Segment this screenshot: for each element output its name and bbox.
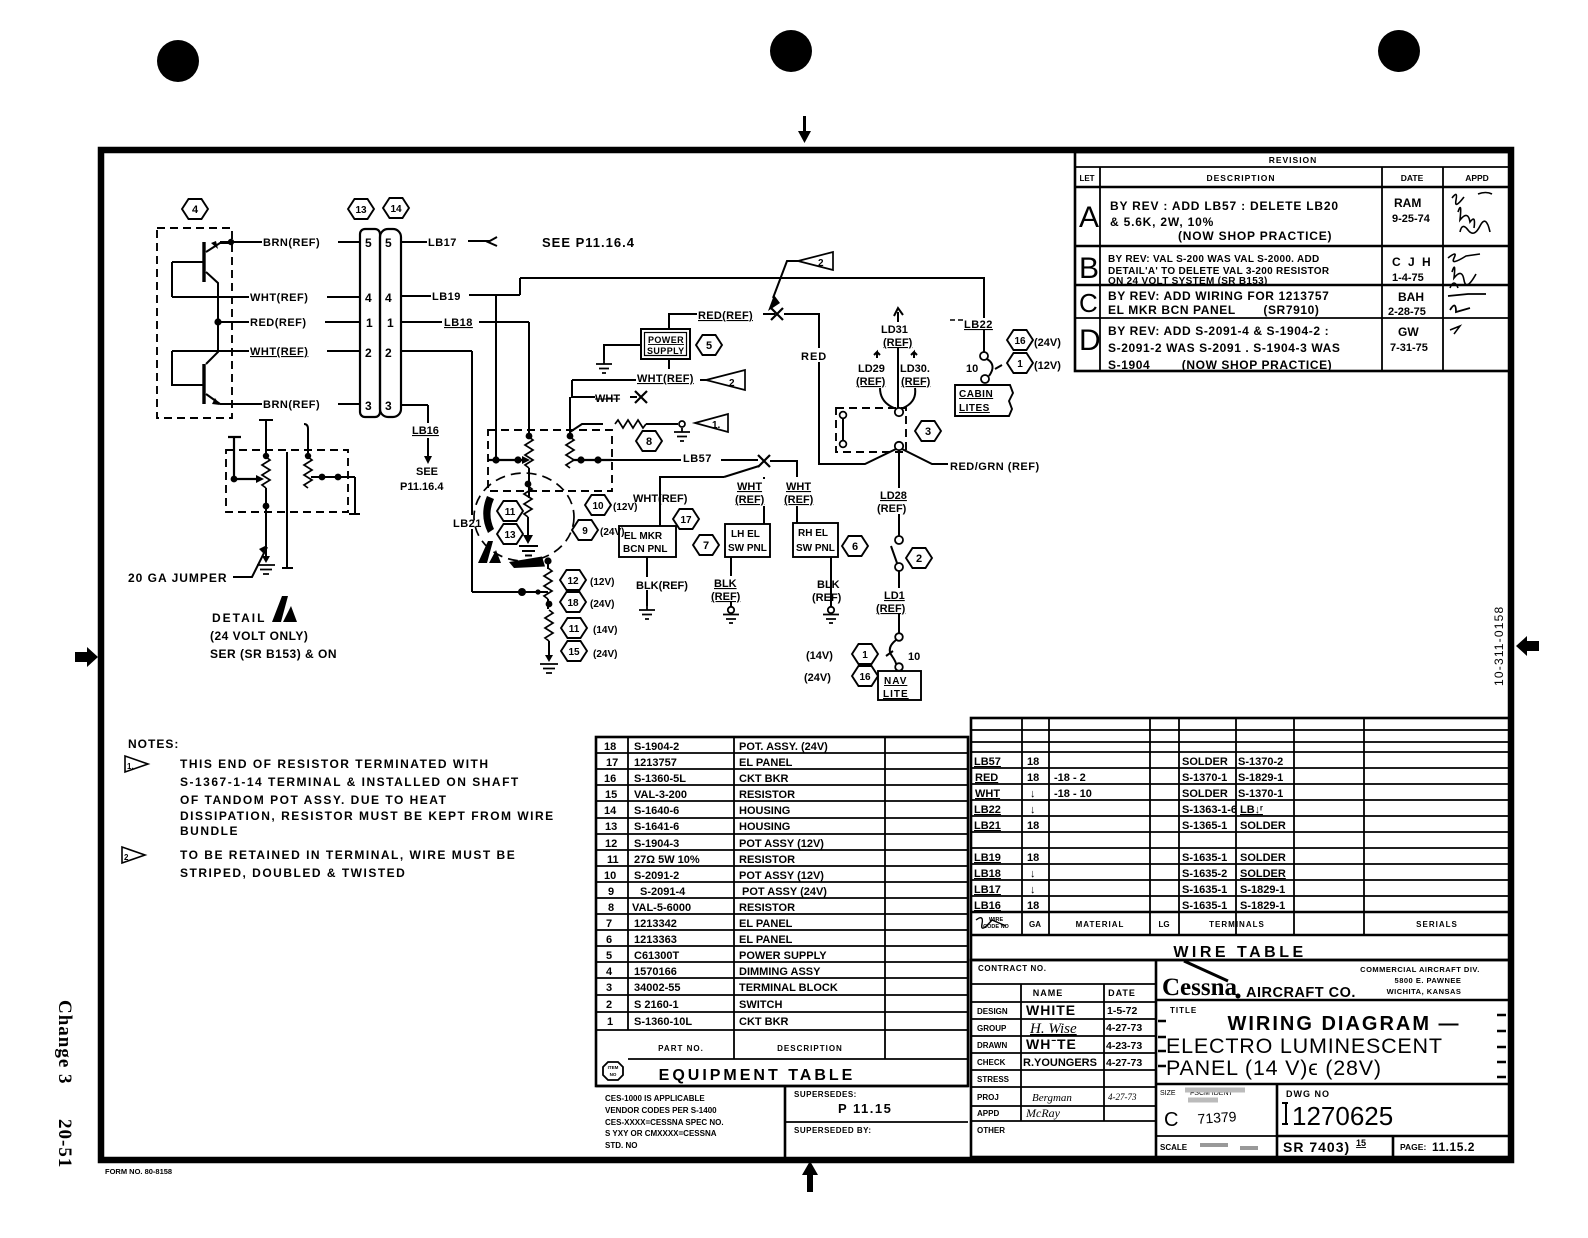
hex flag 17	[673, 509, 699, 529]
svg-text:1: 1	[387, 316, 394, 330]
svg-text:11: 11	[505, 507, 516, 518]
detail A thick pointer arrow	[509, 557, 552, 569]
svg-text:LITES: LITES	[959, 403, 990, 414]
LB18 drop to pot	[528, 322, 530, 435]
svg-text:SERIALS: SERIALS	[1416, 920, 1458, 929]
svg-text:S-1365-1: S-1365-1	[1182, 820, 1227, 832]
svg-text:CHECK: CHECK	[977, 1058, 1006, 1067]
pot P3 wiper	[488, 456, 530, 464]
svg-text:7-31-75: 7-31-75	[1390, 342, 1428, 354]
svg-text:WIRING DIAGRAM —: WIRING DIAGRAM —	[1227, 1013, 1460, 1035]
power supply ground lead	[596, 345, 641, 373]
svg-text:OTHER: OTHER	[977, 1126, 1005, 1135]
svg-text:RED/GRN (REF): RED/GRN (REF)	[950, 461, 1040, 473]
svg-text:LD28: LD28	[880, 490, 907, 502]
svg-text:S-1640-6: S-1640-6	[634, 805, 679, 817]
svg-text:1: 1	[607, 1016, 613, 1028]
svg-text:17: 17	[680, 515, 692, 526]
svg-text:RESISTOR: RESISTOR	[739, 902, 795, 914]
svg-text:DISSIPATION, RESISTOR MUST BE: DISSIPATION, RESISTOR MUST BE KEPT FROM …	[180, 809, 555, 823]
svg-text:9: 9	[608, 886, 614, 898]
svg-text:FORM NO. 80-8158: FORM NO. 80-8158	[105, 1167, 172, 1176]
svg-text:S-2091-2 WAS S-2091 . S-1904: S-2091-2 WAS S-2091 . S-1904-3 WAS	[1108, 341, 1341, 355]
hex flag 13	[348, 199, 374, 219]
svg-text:BLK(REF): BLK(REF)	[636, 580, 688, 592]
svg-text:S-1635-1: S-1635-1	[1182, 884, 1227, 896]
wire LB57	[602, 450, 758, 465]
svg-text:CABIN: CABIN	[959, 389, 993, 400]
wire RED(REF)	[669, 306, 775, 329]
svg-text:SUPPLY: SUPPLY	[647, 346, 685, 356]
pot P1 resistor	[262, 457, 270, 500]
svg-text:1: 1	[862, 650, 868, 661]
wire WHT spliced	[572, 380, 647, 405]
svg-text:(REF): (REF)	[877, 503, 907, 515]
LB19 branch drop to wiper	[495, 295, 497, 460]
svg-text:3: 3	[606, 982, 612, 994]
svg-text:BRN(REF): BRN(REF)	[263, 399, 320, 411]
svg-text:McRay: McRay	[1025, 1106, 1061, 1120]
svg-text:SW PNL: SW PNL	[796, 543, 835, 554]
svg-text:C61300T: C61300T	[634, 950, 680, 962]
svg-text:11.15.2: 11.15.2	[1432, 1140, 1475, 1154]
svg-text:BLK: BLK	[817, 579, 840, 591]
note flag 2 top	[768, 252, 833, 311]
svg-text:PART NO.: PART NO.	[658, 1044, 704, 1053]
revision table	[1075, 152, 1512, 372]
svg-text:CONTRACT NO.: CONTRACT NO.	[978, 964, 1047, 973]
svg-text:S-1363-1-6: S-1363-1-6	[1182, 804, 1237, 816]
svg-text:STRIPED, DOUBLED & TWISTED: STRIPED, DOUBLED & TWISTED	[180, 866, 406, 880]
svg-text:EQUIPMENT TABLE: EQUIPMENT TABLE	[659, 1067, 856, 1084]
registration dot center	[770, 30, 812, 72]
svg-text:DATE: DATE	[1108, 988, 1136, 998]
hex flag 9	[572, 520, 624, 540]
svg-text:VAL-3-200: VAL-3-200	[634, 789, 687, 801]
svg-text:C J H: C J H	[1392, 255, 1433, 269]
hex flag 12	[560, 570, 614, 590]
svg-text:4: 4	[192, 204, 199, 216]
wire LB57 to RH panel	[770, 461, 814, 523]
wire BRN(REF) top	[220, 233, 360, 249]
note flag 1	[125, 756, 148, 772]
svg-text:WHT: WHT	[975, 788, 1000, 800]
svg-text:BUNDLE: BUNDLE	[180, 824, 239, 838]
svg-text:15: 15	[605, 789, 617, 801]
pot P1 wiper	[228, 437, 264, 483]
svg-text:WIRE TABLE: WIRE TABLE	[1173, 944, 1306, 961]
svg-text:S-1370-1: S-1370-1	[1238, 788, 1283, 800]
svg-text:S-1635-1: S-1635-1	[1182, 852, 1227, 864]
svg-text:2: 2	[124, 853, 129, 862]
svg-text:5: 5	[706, 340, 712, 352]
svg-text:(REF): (REF)	[876, 603, 906, 615]
svg-text:SIZE: SIZE	[1160, 1090, 1176, 1097]
svg-text:RED: RED	[801, 351, 827, 363]
svg-text:↓: ↓	[1030, 788, 1036, 800]
svg-text:(12V): (12V)	[590, 577, 614, 588]
svg-text:14: 14	[390, 204, 402, 215]
svg-text:BLK: BLK	[714, 578, 737, 590]
svg-text:DESCRIPTION: DESCRIPTION	[1206, 173, 1275, 183]
svg-text:SOLDER: SOLDER	[1182, 756, 1228, 768]
junction circle upper	[895, 408, 903, 416]
pot P4 wiper	[573, 456, 612, 463]
svg-text:LB19: LB19	[432, 291, 461, 303]
svg-text:8: 8	[608, 902, 614, 914]
svg-text:16: 16	[604, 773, 616, 785]
svg-text:1213757: 1213757	[634, 757, 677, 769]
left alignment arrow	[75, 647, 98, 667]
pot P4 resistor	[566, 433, 574, 468]
svg-text:PAGE:: PAGE:	[1400, 1142, 1426, 1152]
svg-text:ITEM: ITEM	[608, 1065, 619, 1070]
svg-text:LB22: LB22	[974, 804, 1001, 816]
svg-text:-18 - 2: -18 - 2	[1054, 772, 1086, 784]
svg-text:LB22: LB22	[964, 319, 993, 331]
svg-text:S 2160-1: S 2160-1	[634, 999, 679, 1011]
detail A triangle logo small	[478, 541, 501, 563]
hex flag 18	[560, 592, 614, 612]
pin2 wire drop LB21 run	[401, 351, 548, 592]
svg-text:P 11.15: P 11.15	[838, 1101, 892, 1116]
svg-text:SEE: SEE	[416, 466, 438, 478]
svg-text:WHT: WHT	[786, 481, 811, 493]
svg-text:BY REV : ADD LB57 : DELETE LB: BY REV : ADD LB57 : DELETE LB20	[1110, 199, 1339, 213]
svg-text:1: 1	[1017, 359, 1023, 370]
svg-text:LB57: LB57	[974, 756, 1001, 768]
svg-text:S-2091-4: S-2091-4	[640, 886, 686, 898]
note flag 2	[122, 847, 145, 863]
svg-text:D: D	[1079, 324, 1101, 357]
svg-text:R.YOUNGERS: R.YOUNGERS	[1023, 1057, 1097, 1069]
svg-text:LB17: LB17	[428, 237, 457, 249]
lamp LD1	[876, 571, 921, 633]
svg-text:POT ASSY (12V): POT ASSY (12V)	[739, 870, 824, 882]
svg-text:WHT: WHT	[737, 481, 762, 493]
svg-text:2: 2	[365, 346, 372, 360]
wire LB17	[401, 235, 635, 250]
svg-text:S-1829-1: S-1829-1	[1240, 900, 1285, 912]
svg-text:DWG NO: DWG NO	[1286, 1089, 1330, 1099]
svg-text:EL PANEL: EL PANEL	[739, 918, 793, 930]
svg-text:TERMINAL BLOCK: TERMINAL BLOCK	[739, 982, 838, 994]
svg-text:APPD: APPD	[977, 1109, 999, 1118]
svg-text:DESIGN: DESIGN	[977, 1007, 1008, 1016]
svg-text:DATE: DATE	[1401, 173, 1424, 183]
svg-text:P11.16.4: P11.16.4	[400, 481, 444, 493]
svg-text:NAV: NAV	[884, 676, 907, 687]
hex flag 7	[693, 535, 719, 555]
svg-text:Bergman: Bergman	[1032, 1092, 1072, 1104]
hex flag 16 cabin	[1007, 330, 1061, 350]
svg-text:4-27-73: 4-27-73	[1108, 1092, 1137, 1102]
svg-text:BAH: BAH	[1398, 290, 1424, 304]
svg-text:(REF): (REF)	[856, 376, 886, 388]
svg-text:LH EL: LH EL	[731, 529, 760, 540]
vendor codes note box	[784, 1086, 787, 1160]
svg-text:LITE: LITE	[883, 689, 909, 700]
junction dot collector BRN	[228, 239, 234, 245]
svg-text:LD29: LD29	[858, 363, 885, 375]
wire pin3 LB16	[400, 405, 444, 493]
hex flag 6	[842, 536, 868, 556]
registration dot right	[1378, 30, 1420, 72]
svg-text:S-1829-1: S-1829-1	[1238, 772, 1283, 784]
item no octagon symbol	[603, 1062, 623, 1080]
svg-text:13: 13	[605, 821, 617, 833]
switch S3 nav	[886, 633, 920, 671]
svg-text:10: 10	[966, 363, 978, 375]
svg-text:14: 14	[604, 805, 617, 817]
svg-text:DETAIL: DETAIL	[212, 611, 266, 625]
svg-text:H. Wise: H. Wise	[1029, 1021, 1077, 1037]
LH EL SW panel box	[725, 524, 770, 557]
svg-text:BY REV: VAL S-200 WAS VAL S-2: BY REV: VAL S-200 WAS VAL S-2000. ADD	[1108, 254, 1320, 265]
svg-text:12: 12	[567, 576, 579, 587]
svg-text:2: 2	[916, 553, 922, 565]
svg-text:RH EL: RH EL	[798, 528, 828, 539]
pot P3 resistor	[525, 433, 533, 498]
svg-text:S-1360-10L: S-1360-10L	[634, 1016, 692, 1028]
connector pin numbers	[365, 236, 394, 413]
wire branch to EL MKR panel	[633, 477, 724, 526]
lamp LD28	[877, 450, 921, 536]
svg-text:2: 2	[385, 346, 392, 360]
svg-text:15: 15	[568, 647, 580, 658]
svg-text:GW: GW	[1398, 325, 1419, 339]
label 20 GA JUMPER	[128, 545, 267, 585]
svg-text:16: 16	[859, 672, 871, 683]
svg-text:LB16: LB16	[412, 425, 439, 437]
hex flag 3	[915, 421, 941, 441]
note 1 text	[180, 757, 555, 838]
svg-text:WHITE: WHITE	[1026, 1002, 1076, 1018]
svg-text:WHT: WHT	[595, 393, 620, 405]
svg-text:5: 5	[365, 236, 372, 250]
hex flag 1 nav	[806, 644, 878, 664]
RH EL SW panel box	[793, 523, 838, 557]
svg-text:18: 18	[1027, 852, 1039, 864]
wire WHT(REF) pin4	[172, 288, 360, 304]
svg-text:SW PNL: SW PNL	[728, 543, 767, 554]
ground at R8	[674, 428, 690, 441]
svg-text:7: 7	[703, 540, 709, 552]
svg-text:WHˉTE: WHˉTE	[1026, 1036, 1077, 1052]
svg-text:(24V): (24V)	[590, 599, 614, 610]
svg-text:LB21: LB21	[453, 518, 482, 530]
registration dot left	[157, 40, 199, 82]
svg-text:BY REV: ADD S-2091-4 & S-190: BY REV: ADD S-2091-4 & S-1904-2 :	[1108, 324, 1329, 338]
svg-text:RED(REF): RED(REF)	[698, 310, 753, 322]
svg-text:S-1904-3: S-1904-3	[634, 838, 679, 850]
svg-text:SOLDER: SOLDER	[1240, 868, 1286, 880]
svg-text:6: 6	[852, 541, 858, 553]
svg-text:LB16: LB16	[974, 900, 1001, 912]
svg-text:1270625: 1270625	[1292, 1101, 1393, 1131]
svg-text:NO: NO	[610, 1072, 617, 1077]
DETAIL A caption	[210, 596, 337, 661]
svg-text:SUPERSEDES:: SUPERSEDES:	[794, 1090, 857, 1099]
svg-text:(REF): (REF)	[883, 337, 913, 349]
svg-text:RED(REF): RED(REF)	[250, 317, 307, 329]
svg-text:10: 10	[604, 870, 616, 882]
wire LB19	[401, 291, 520, 303]
svg-text:LB17: LB17	[974, 884, 1001, 896]
hex flag 13 mid	[497, 524, 523, 544]
wire WHT(REF) pin2	[172, 342, 360, 358]
svg-text:11: 11	[607, 854, 619, 866]
svg-text:CES-XXXX=CESSNA SPEC NO.: CES-XXXX=CESSNA SPEC NO.	[605, 1118, 724, 1127]
LB21 label	[451, 515, 484, 530]
svg-text:TERMINALS: TERMINALS	[1209, 920, 1265, 929]
svg-text:EL MKR: EL MKR	[624, 531, 663, 542]
svg-text:S-1829-1: S-1829-1	[1240, 884, 1285, 896]
junction circle lower	[895, 442, 903, 450]
top center alignment arrow	[798, 116, 811, 143]
svg-text:71379: 71379	[1197, 1108, 1237, 1127]
svg-text:4: 4	[385, 291, 392, 305]
svg-text:8: 8	[646, 436, 652, 448]
wire LB22	[950, 319, 993, 352]
svg-text:5: 5	[606, 950, 612, 962]
junction dot RED node	[214, 318, 221, 325]
svg-text:1213363: 1213363	[634, 934, 677, 946]
svg-text:11: 11	[569, 624, 580, 635]
svg-text:EL MKR BCN PANEL (SR7910: EL MKR BCN PANEL (SR7910)	[1108, 303, 1320, 317]
svg-text:LB21: LB21	[974, 820, 1001, 832]
svg-text:9: 9	[582, 526, 588, 537]
svg-text:(REF): (REF)	[812, 592, 842, 604]
hex flag 10	[585, 495, 637, 515]
pot P2 lead	[304, 424, 311, 459]
svg-text:18: 18	[1027, 756, 1039, 768]
svg-text:TITLE: TITLE	[1170, 1006, 1197, 1015]
svg-text:12: 12	[605, 838, 617, 850]
svg-text:SOLDER: SOLDER	[1240, 820, 1286, 832]
detail circle dashed	[474, 473, 574, 561]
svg-text:CES-1000 IS APPLICABLE: CES-1000 IS APPLICABLE	[605, 1094, 705, 1103]
svg-text:POWER: POWER	[648, 335, 684, 345]
svg-text:1570166: 1570166	[634, 966, 677, 978]
NAV LITE box	[878, 671, 921, 700]
svg-text:B: B	[1079, 252, 1099, 285]
pot P1 bottom lead and ground	[257, 500, 275, 574]
bus wire y278 to LB22 drop	[520, 278, 984, 318]
wire branch to LH panel	[724, 466, 765, 524]
hex flag 8	[636, 431, 662, 451]
hex flag 15 low	[561, 641, 617, 661]
svg-text:RED: RED	[975, 772, 998, 784]
svg-text:(24V): (24V)	[804, 672, 831, 684]
svg-text:LB↓ʳ: LB↓ʳ	[1240, 804, 1263, 816]
svg-text:↓: ↓	[1030, 804, 1036, 816]
svg-text:(NOW SHOP PRACTICE): (NOW SHOP PRACTICE)	[1178, 229, 1332, 243]
svg-text:BY REV: ADD WIRING FOR 1213757: BY REV: ADD WIRING FOR 1213757	[1108, 289, 1329, 303]
svg-text:(REF): (REF)	[784, 494, 814, 506]
power supply PS1	[641, 329, 690, 359]
svg-text:GROUP: GROUP	[977, 1024, 1007, 1033]
title block	[971, 960, 1512, 1157]
svg-text:SOLDER: SOLDER	[1182, 788, 1228, 800]
svg-text:15: 15	[1356, 1138, 1366, 1148]
lamp LD29 LD30 labels	[856, 352, 931, 408]
svg-text:S-1370-2: S-1370-2	[1238, 756, 1283, 768]
svg-text:S-1904-2: S-1904-2	[634, 741, 679, 753]
svg-text:S-1370-1: S-1370-1	[1182, 772, 1227, 784]
svg-text:POT ASSY (24V): POT ASSY (24V)	[742, 886, 827, 898]
svg-text:THIS END OF RESISTOR TERMINATE: THIS END OF RESISTOR TERMINATED WITH	[180, 757, 490, 771]
svg-text:LB19: LB19	[974, 852, 1001, 864]
svg-text:S YXY OR CMXXXX=CESSNA: S YXY OR CMXXXX=CESSNA	[605, 1129, 717, 1138]
hex flag 14	[383, 198, 409, 218]
svg-text:(REF): (REF)	[711, 591, 741, 603]
svg-text:PANEL (14 V)ϵ (28V): PANEL (14 V)ϵ (28V)	[1166, 1056, 1382, 1080]
transistor pair dashed box	[157, 228, 232, 418]
svg-text:2: 2	[606, 999, 612, 1011]
svg-text:SCALE: SCALE	[1160, 1143, 1188, 1152]
svg-text:18: 18	[604, 741, 616, 753]
svg-text:LET: LET	[1079, 174, 1094, 183]
equipment table	[596, 737, 968, 1160]
svg-text:(24V): (24V)	[600, 527, 624, 538]
svg-text:WHT(REF): WHT(REF)	[250, 346, 308, 358]
svg-text:PROJ: PROJ	[977, 1093, 999, 1102]
wire LB19 riser to bus	[519, 278, 521, 295]
transistor Q1	[172, 241, 231, 323]
resistor R8	[570, 420, 685, 432]
svg-text:LD1: LD1	[884, 590, 905, 602]
svg-text:34002-55: 34002-55	[634, 982, 681, 994]
svg-text:S-1641-6: S-1641-6	[634, 821, 679, 833]
upper pot assy dashed box	[488, 430, 612, 491]
svg-text:SUPERSEDED BY:: SUPERSEDED BY:	[794, 1126, 872, 1135]
BLK lead RH	[812, 557, 842, 623]
svg-text:S-1635-1: S-1635-1	[1182, 900, 1227, 912]
pot P2 wiper	[311, 474, 360, 514]
svg-text:2-28-75: 2-28-75	[1388, 306, 1426, 318]
scale / sr / page row	[1156, 1135, 1512, 1137]
svg-text:DESCRIPTION: DESCRIPTION	[777, 1044, 843, 1053]
svg-text:4: 4	[606, 966, 613, 978]
svg-text:4-27-73: 4-27-73	[1106, 1057, 1142, 1069]
note flag 1	[695, 414, 728, 432]
svg-text:S-1367-1-14 TERMINAL & INSTAL: S-1367-1-14 TERMINAL & INSTALLED ON SHAF…	[180, 775, 520, 789]
svg-text:S-1360-5L: S-1360-5L	[634, 773, 686, 785]
hex flag 11 low	[561, 618, 617, 638]
svg-text:4-27-73: 4-27-73	[1106, 1022, 1142, 1034]
dropper resistor chain upper	[544, 561, 552, 609]
svg-text:4-23-73: 4-23-73	[1106, 1040, 1142, 1052]
svg-text:1-4-75: 1-4-75	[1392, 272, 1424, 284]
svg-text:MATERIAL: MATERIAL	[1076, 920, 1125, 929]
name/date signature table	[971, 1001, 1156, 1003]
svg-text:WHT(REF): WHT(REF)	[633, 493, 688, 505]
detail A marker arrow left	[483, 496, 494, 533]
CABIN LITES box	[955, 385, 1013, 416]
svg-text:Change 3 20-51: Change 3 20-51	[54, 1000, 75, 1168]
svg-text:STRESS: STRESS	[977, 1075, 1010, 1084]
svg-text:1.: 1.	[712, 420, 721, 431]
svg-text:ELECTRO LUMINESCENT: ELECTRO LUMINESCENT	[1166, 1034, 1443, 1058]
wire LB18	[401, 317, 529, 329]
pot P2 resistor	[304, 457, 312, 488]
svg-text:C: C	[1079, 288, 1098, 318]
svg-text:WICHITA, KANSAS: WICHITA, KANSAS	[1387, 987, 1462, 996]
svg-text:(14V): (14V)	[593, 625, 617, 636]
hex flag 11 mid	[497, 501, 523, 521]
svg-text:↓: ↓	[1030, 868, 1036, 880]
